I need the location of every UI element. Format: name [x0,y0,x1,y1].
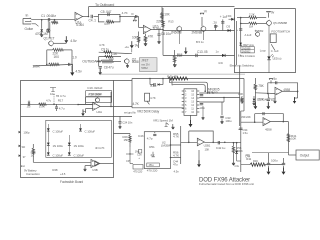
wire u2a feed [110,92,112,97]
diode D1 [40,29,43,32]
resistor R12 [104,51,112,54]
svg-text:C. 1uF: C. 1uF [271,49,279,53]
svg-text:TL064: TL064 [75,23,84,27]
wire clock right [171,144,181,146]
svg-text:R17: R17 [58,98,64,102]
svg-text:150: 150 [109,57,114,61]
svg-text:D4: D4 [228,14,232,18]
diode D10 [47,128,50,131]
wire fb loop U2a [86,97,111,107]
svg-text:R.31 47K: R.31 47K [167,75,178,79]
capacitor C fb2 electro [267,98,270,100]
svg-text:2N5088: 2N5088 [192,30,203,34]
wire osc row [21,103,93,105]
resistor R5B [49,63,60,66]
ground below U1b [144,43,147,45]
wire bottom bbd link [20,115,22,117]
ground BBD caps [202,106,204,118]
resistor R1 [54,20,56,22]
wire u3 out [270,121,288,123]
wire dashed [53,94,55,104]
capacitor C33 electro [221,102,223,115]
svg-text:15K: 15K [124,138,129,142]
resistor R9 vertical [138,32,140,37]
ground right col [274,96,276,101]
ground fb a [254,102,256,106]
resistor R31 [168,77,187,80]
wire mix row2 [99,56,121,58]
wire R29 down [129,147,131,164]
svg-text:.1u: .1u [213,20,217,24]
svg-text:C4 .1: C4 .1 [89,18,97,22]
capacitor C fb1 [275,81,277,84]
svg-text:B E C bottom: B E C bottom [240,54,256,58]
wire bbd lower row [132,107,184,109]
wire clock vert [180,126,182,164]
clock loop outer [170,79,208,93]
transistor Q4 [201,27,206,32]
wire to U1b net [120,16,131,18]
wire bus join [237,160,241,162]
capacitor C fb3 [262,112,264,115]
op-amp U3b inner [95,161,100,166]
wire u2b loop [189,131,213,142]
op-amp U3b [91,160,98,168]
svg-text:5952: 5952 [141,66,148,70]
resistor R22 [249,22,257,24]
wire bottom bias [33,64,72,66]
svg-text:U3B: U3B [92,168,97,172]
transistor LFO [95,98,99,102]
svg-text:C 100uF: C 100uF [53,130,64,134]
power 9V switch [268,12,270,17]
svg-text:Ext: Ext [21,164,25,168]
transistor Q2 [125,59,130,64]
svg-text:.05u: .05u [148,163,154,167]
node A [41,19,43,21]
op-amp U1a [75,12,83,20]
section box power [21,81,114,178]
wire Q3 emitter [178,31,180,44]
wire sw row2 [241,22,249,24]
svg-text:Q1 FET: Q1 FET [44,36,55,40]
svg-text:9v: 9v [135,43,139,47]
capacitor clock top [153,133,156,135]
svg-text:LM358: LM358 [161,143,170,147]
resistor R13 [105,55,113,57]
wire u3 loop [255,114,284,123]
svg-text:Electronic Switching: Electronic Switching [230,63,254,67]
svg-text:C44: C44 [245,155,250,159]
svg-text:Full schematic traced from a D: Full schematic traced from a DOD FX96 un… [199,182,254,186]
ground fb b [267,102,269,106]
svg-text:4.7p: 4.7p [147,137,153,141]
svg-text:9v: 9v [271,11,275,15]
power Vr stub [134,17,136,20]
svg-text:C42 1u: C42 1u [216,146,226,150]
resistor R43 [250,163,265,166]
wire u2b in [181,141,198,143]
resistor R44 vertical [254,78,256,84]
svg-text:Output: Output [300,153,309,157]
wire up to rail [88,7,90,17]
svg-text:B.5 1u: B.5 1u [196,40,204,44]
svg-text:1K0: 1K0 [54,55,60,59]
wire R11 from rail [161,7,163,14]
resistor R38 vertical [241,96,243,98]
svg-text:100p: 100p [23,130,30,134]
svg-text:4.5v: 4.5v [174,170,180,174]
LED D6 [267,56,270,59]
diode D sw [239,43,242,46]
node rail tap [162,29,164,31]
svg-text:100K: 100K [32,65,40,69]
wire mix row1 [99,52,132,54]
svg-text:100u: 100u [271,158,278,162]
pot VR2 [145,93,150,101]
svg-text:+1u: +1u [125,45,130,49]
power arrow 4.5V b [71,64,73,72]
input jack J1 [23,19,31,25]
diode D11 [79,128,82,131]
svg-text:C8 47u: C8 47u [104,65,114,69]
resistor R41 vertical [287,134,290,142]
capacitor C4 [90,15,92,18]
connector tap a [19,131,21,134]
wire vert right clock [236,21,238,65]
svg-text:1N4: 1N4 [218,62,223,65]
diode D9 dark [236,143,238,151]
svg-text:4.5v: 4.5v [75,69,82,73]
capacitor C17 sub [56,104,58,106]
svg-text:R18 100K: R18 100K [88,92,102,96]
svg-text:C9 1u: C9 1u [101,48,109,52]
wire sw left col [240,18,242,47]
svg-text:A 1uF: A 1uF [245,33,252,37]
svg-text:1.0: 1.0 [72,55,76,59]
svg-text:R48: R48 [52,168,57,172]
svg-text:4.7u: 4.7u [59,107,65,111]
wire BBD out1 [199,92,239,94]
svg-text:15K: 15K [205,147,210,151]
capacitor C11 branch [215,25,217,31]
ground C8b [99,69,101,73]
svg-text:9v: 9v [273,77,277,81]
svg-text:C 100uF: C 100uF [85,130,96,134]
capacitor C2 electro [47,29,50,32]
ground fb out [295,97,298,99]
ground input diodes [41,32,43,35]
resistor R56 vertical [233,143,235,146]
op-amp U1b [143,25,151,33]
wire tap row [126,153,134,155]
section box clock [144,132,170,169]
clock loop inner [172,79,205,92]
output jack box [296,150,319,160]
resistor R29 vertical [129,134,131,136]
svg-text:470 220: 470 220 [133,169,143,173]
svg-text:Loop: Loop [260,49,266,53]
resistor R15b vertical [174,50,176,55]
capacitor C6 [135,15,137,18]
wire U1b out [151,29,163,31]
svg-text:C5 .047: C5 .047 [101,10,112,14]
op-amp U4a [275,87,282,95]
capacitor C1 [47,18,49,21]
capacitor C sw [239,28,242,30]
svg-text:4.7K: 4.7K [133,102,140,106]
footswitch S1 [270,34,276,43]
node bias1 [46,64,48,66]
wire fb input row [255,92,275,95]
jack sleeve lead [32,24,39,27]
wire sw row1 [237,17,249,19]
wire top rail To Outboard [89,6,235,8]
svg-text:FOOTSWITCH: FOOTSWITCH [271,30,289,34]
svg-text:Vr: Vr [131,12,134,16]
wire delay row [163,54,235,56]
svg-text:R13: R13 [168,20,173,24]
divider gray band [100,73,245,75]
transistor Q5 [267,21,272,26]
capacitor C34 [239,127,242,129]
diode D14 [47,152,50,155]
wire right col b [243,79,245,112]
ground C33 [221,119,223,122]
wire C8b stem [98,57,100,66]
diode D12 [47,143,50,146]
capacitor C13 [195,54,197,57]
svg-text:4.5v: 4.5v [70,39,77,43]
diode D7 [253,96,255,98]
ground BBD [190,115,192,123]
svg-text:5088: 5088 [132,60,139,64]
wire input [32,19,75,21]
caps BBD out [200,94,204,96]
power arrow 9V mix [131,41,133,45]
ground out a [268,168,270,172]
note box JFET [140,58,158,72]
wire bbd outlink [223,98,225,103]
wire down to U1b [131,16,138,18]
svg-text:CP: CP [126,159,130,163]
BBD pins left [182,90,184,92]
small rect clock [147,163,160,167]
power 9V top mid [201,17,203,26]
capacitor C5 [107,13,109,16]
table LFO [86,91,112,103]
svg-text:C3x: C3x [234,164,239,168]
node osc [53,104,55,106]
svg-text:Guitar: Guitar [25,27,34,31]
svg-text:Footswitch Board: Footswitch Board [60,180,83,184]
op-amp U3a [263,118,270,126]
svg-text:1.5u: 1.5u [243,131,249,135]
svg-text:SD: SD [22,145,26,149]
pot speed [165,123,169,127]
diode D15 [68,152,71,155]
ground R15b [173,64,177,66]
transistor Q3 [177,27,182,32]
svg-text:4.7K: 4.7K [173,135,180,139]
pot loop [47,50,72,65]
node mix [98,61,100,63]
svg-text:To Outboard: To Outboard [95,3,114,7]
section box switching [235,9,296,73]
resistor R16 [39,103,47,106]
connector tap b [19,145,21,148]
svg-text:4558: 4558 [265,128,272,132]
transistor small T [50,88,56,92]
inner box power [46,120,112,157]
ground speed [172,124,174,127]
wire out bottom [265,164,284,166]
diode D4 dark [231,18,234,21]
svg-text:In: In [26,14,29,18]
svg-text:100u: 100u [225,119,232,123]
svg-text:4.7K: 4.7K [122,11,129,15]
svg-text:2.2K: 2.2K [249,12,255,16]
svg-text:C24 10n: C24 10n [122,121,132,125]
wire U2a in1 [78,104,93,106]
diode D3 [228,29,231,32]
svg-text:C 100uF: C 100uF [74,153,85,157]
transistor Q6 [256,32,260,36]
svg-text:C 100uF: C 100uF [53,153,64,157]
power 9V fb [270,80,272,83]
wire BBD out2 [199,97,239,99]
svg-text:TL064: TL064 [152,27,161,31]
wire BBD out3 [199,101,224,103]
svg-text:R49: R49 [253,159,258,163]
svg-text:4.7K: 4.7K [173,153,180,157]
wire R31 left [149,79,151,85]
capacitor C12 electro [222,19,224,30]
wire fb out [282,90,297,92]
wire out vert [288,122,290,155]
wire Q1 collector [49,22,51,38]
table transistors [241,47,254,53]
wire mid [94,16,99,18]
wire R10 branch [145,34,147,36]
svg-text:4.7K: 4.7K [99,43,105,47]
capacitor C42 [217,141,219,144]
power arrow mid [185,47,187,51]
svg-text:R51: R51 [149,145,155,149]
wire u3 in [241,121,263,123]
svg-text:R39 22K: R39 22K [241,115,251,119]
wire to diodes [41,20,43,29]
resistor R45 vertical [32,144,34,148]
wire Q4 emitter [203,31,205,40]
wire U1a out [83,16,89,18]
capacitor C46 [283,158,285,164]
capacitor C8 branch [158,30,160,34]
svg-text:4.7u: 4.7u [46,99,52,103]
resistor R21 [249,16,257,19]
wire fb loop1 [268,83,298,93]
capacitor C16 [27,103,29,106]
wire clock row [163,30,235,32]
transistor Q1 [49,41,54,46]
small rect outside clock [133,165,143,170]
op-amp U2a [93,102,100,110]
svg-text:C13 .05: C13 .05 [197,50,208,54]
capacitor C10 [68,63,70,66]
wire U2a in2 [86,108,93,110]
op-amp U2b [197,138,204,146]
svg-text:1.5K: 1.5K [39,105,46,109]
wire u3b out [98,163,113,165]
capacitor C8b electro [99,66,102,68]
svg-text:JFET pins: JFET pins [243,43,255,47]
svg-text:47u: 47u [173,162,178,166]
svg-text:470 220: 470 220 [147,169,158,173]
svg-text:VR1 Speed 1M: VR1 Speed 1M [153,118,173,122]
svg-text:1.5K: 1.5K [111,52,118,56]
wire bias row [54,42,67,44]
svg-text:D3: D3 [227,25,231,29]
svg-text:1N 100u: 1N 100u [53,144,64,148]
resistor R5A [53,49,64,52]
ground U2a [82,109,84,113]
feedback loop U1b [98,14,120,22]
svg-text:C43: C43 [138,134,144,138]
ground D8 ext [233,156,235,163]
resistor R15 vertical [162,20,165,27]
svg-text:VR2 500K Delay: VR2 500K Delay [137,109,160,113]
wire long vertical A [162,8,164,55]
wire out col [240,111,242,172]
svg-text:10u: 10u [50,92,55,96]
connector tap c [19,154,21,157]
svg-text:D5 4148: D5 4148 [257,97,268,101]
diode D5 row [222,54,225,57]
wire u2b out [204,141,241,143]
wire to out jack [289,154,297,156]
wire D2 stem [47,20,49,29]
svg-text:+ 1uF: + 1uF [220,15,228,19]
wire u3b feed [33,161,90,163]
svg-text:Connection: Connection [26,172,40,176]
wire to arrow [71,66,73,71]
svg-text:4N 4.7K: 4N 4.7K [95,146,105,150]
ground u2b [198,150,200,164]
svg-text:LED (x): LED (x) [273,56,282,60]
divider power box [21,115,133,117]
wire box top ext [114,80,133,82]
ground out b [283,168,285,172]
svg-text:100n: 100n [200,106,206,110]
svg-text:.1u: .1u [26,105,30,109]
svg-text:4.7K: 4.7K [150,96,156,100]
svg-text:C8 10u: C8 10u [161,32,171,36]
node B [54,19,56,21]
resistor R6 [106,21,114,24]
capacitor C45 [268,153,270,164]
BBD IC U5 MN3005 [184,89,197,116]
svg-text:1N 100u: 1N 100u [74,144,85,148]
power arrow 4.5V a [65,36,67,40]
svg-text:wrt gnd fix: wrt gnd fix [124,111,136,115]
capacitor C24 [119,116,121,121]
diode D13 [68,143,71,146]
wire c45 top [252,152,289,154]
svg-text:2.2: 2.2 [151,153,155,157]
wire bbd left lower [131,79,133,108]
svg-text:Q5 2N5088: Q5 2N5088 [273,21,287,25]
svg-text:C19 .022uF: C19 .022uF [87,86,102,90]
